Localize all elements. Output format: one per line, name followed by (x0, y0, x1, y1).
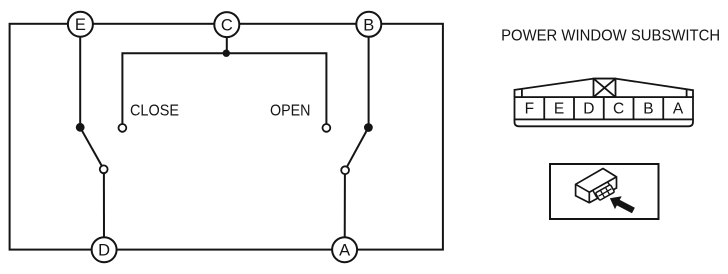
svg-text:B: B (643, 100, 653, 117)
CLOSE terminal open circle (119, 124, 127, 132)
wire: B terminal to right switch contact (368, 24, 370, 128)
pin D label (583, 100, 594, 117)
connector socket detail on 3D icon (593, 181, 615, 201)
pin C label (613, 100, 624, 117)
title POWER WINDOW SUBSWITCH (501, 27, 720, 44)
wire: E terminal to left switch contact (79, 24, 81, 127)
label OPEN (270, 103, 311, 120)
switch SW1 pivot circle (100, 165, 108, 173)
junction dot under C (223, 50, 230, 57)
wire: SW2 pivot to A terminal (344, 174, 346, 249)
terminal A (332, 237, 357, 262)
connector body 3D icon (576, 169, 617, 203)
svg-text:A: A (339, 242, 350, 260)
terminal B (356, 12, 381, 37)
pin E label (554, 100, 564, 117)
svg-text:B: B (363, 16, 374, 34)
label CLOSE (130, 103, 179, 120)
OPEN terminal open circle (323, 124, 331, 132)
terminal E (68, 12, 93, 37)
terminal D (92, 237, 117, 262)
connector J1 roof outline with lock tab (515, 79, 694, 98)
switch SW2 pivot circle (341, 166, 349, 174)
wire: inner bracket CLOSE-junction-OPEN (122, 53, 326, 128)
svg-text:F: F (525, 100, 534, 117)
svg-text:A: A (673, 100, 684, 117)
svg-text:D: D (583, 100, 594, 117)
svg-text:D: D (98, 242, 110, 260)
connector J1 bottom rim (515, 119, 694, 126)
location callout box (550, 164, 659, 219)
pin B label (643, 100, 653, 117)
switch SW1 blade (left, from E contact to pivot) (80, 128, 104, 170)
connector J1 pin row box (515, 97, 694, 119)
connector J1 lock tab X box (594, 79, 616, 98)
pin F label (525, 100, 534, 117)
wire: outer loop rectangle (10, 24, 443, 250)
switch SW2 contact dot on B line (364, 123, 373, 132)
terminal C (214, 12, 239, 37)
wire: C terminal to junction (226, 24, 228, 53)
svg-text:E: E (554, 100, 564, 117)
svg-text:POWER WINDOW SUBSWITCH: POWER WINDOW SUBSWITCH (501, 27, 720, 44)
pin A label (673, 100, 684, 117)
svg-text:C: C (613, 100, 624, 117)
switch SW1 contact dot on E line (76, 123, 85, 132)
switch SW2 blade (right, from B contact to pivot) (345, 128, 368, 171)
svg-text:C: C (221, 17, 233, 35)
svg-text:CLOSE: CLOSE (130, 103, 179, 120)
svg-text:OPEN: OPEN (270, 103, 311, 120)
svg-text:E: E (75, 16, 86, 34)
wire: SW1 pivot to D terminal (103, 173, 105, 249)
location arrow (607, 192, 637, 217)
